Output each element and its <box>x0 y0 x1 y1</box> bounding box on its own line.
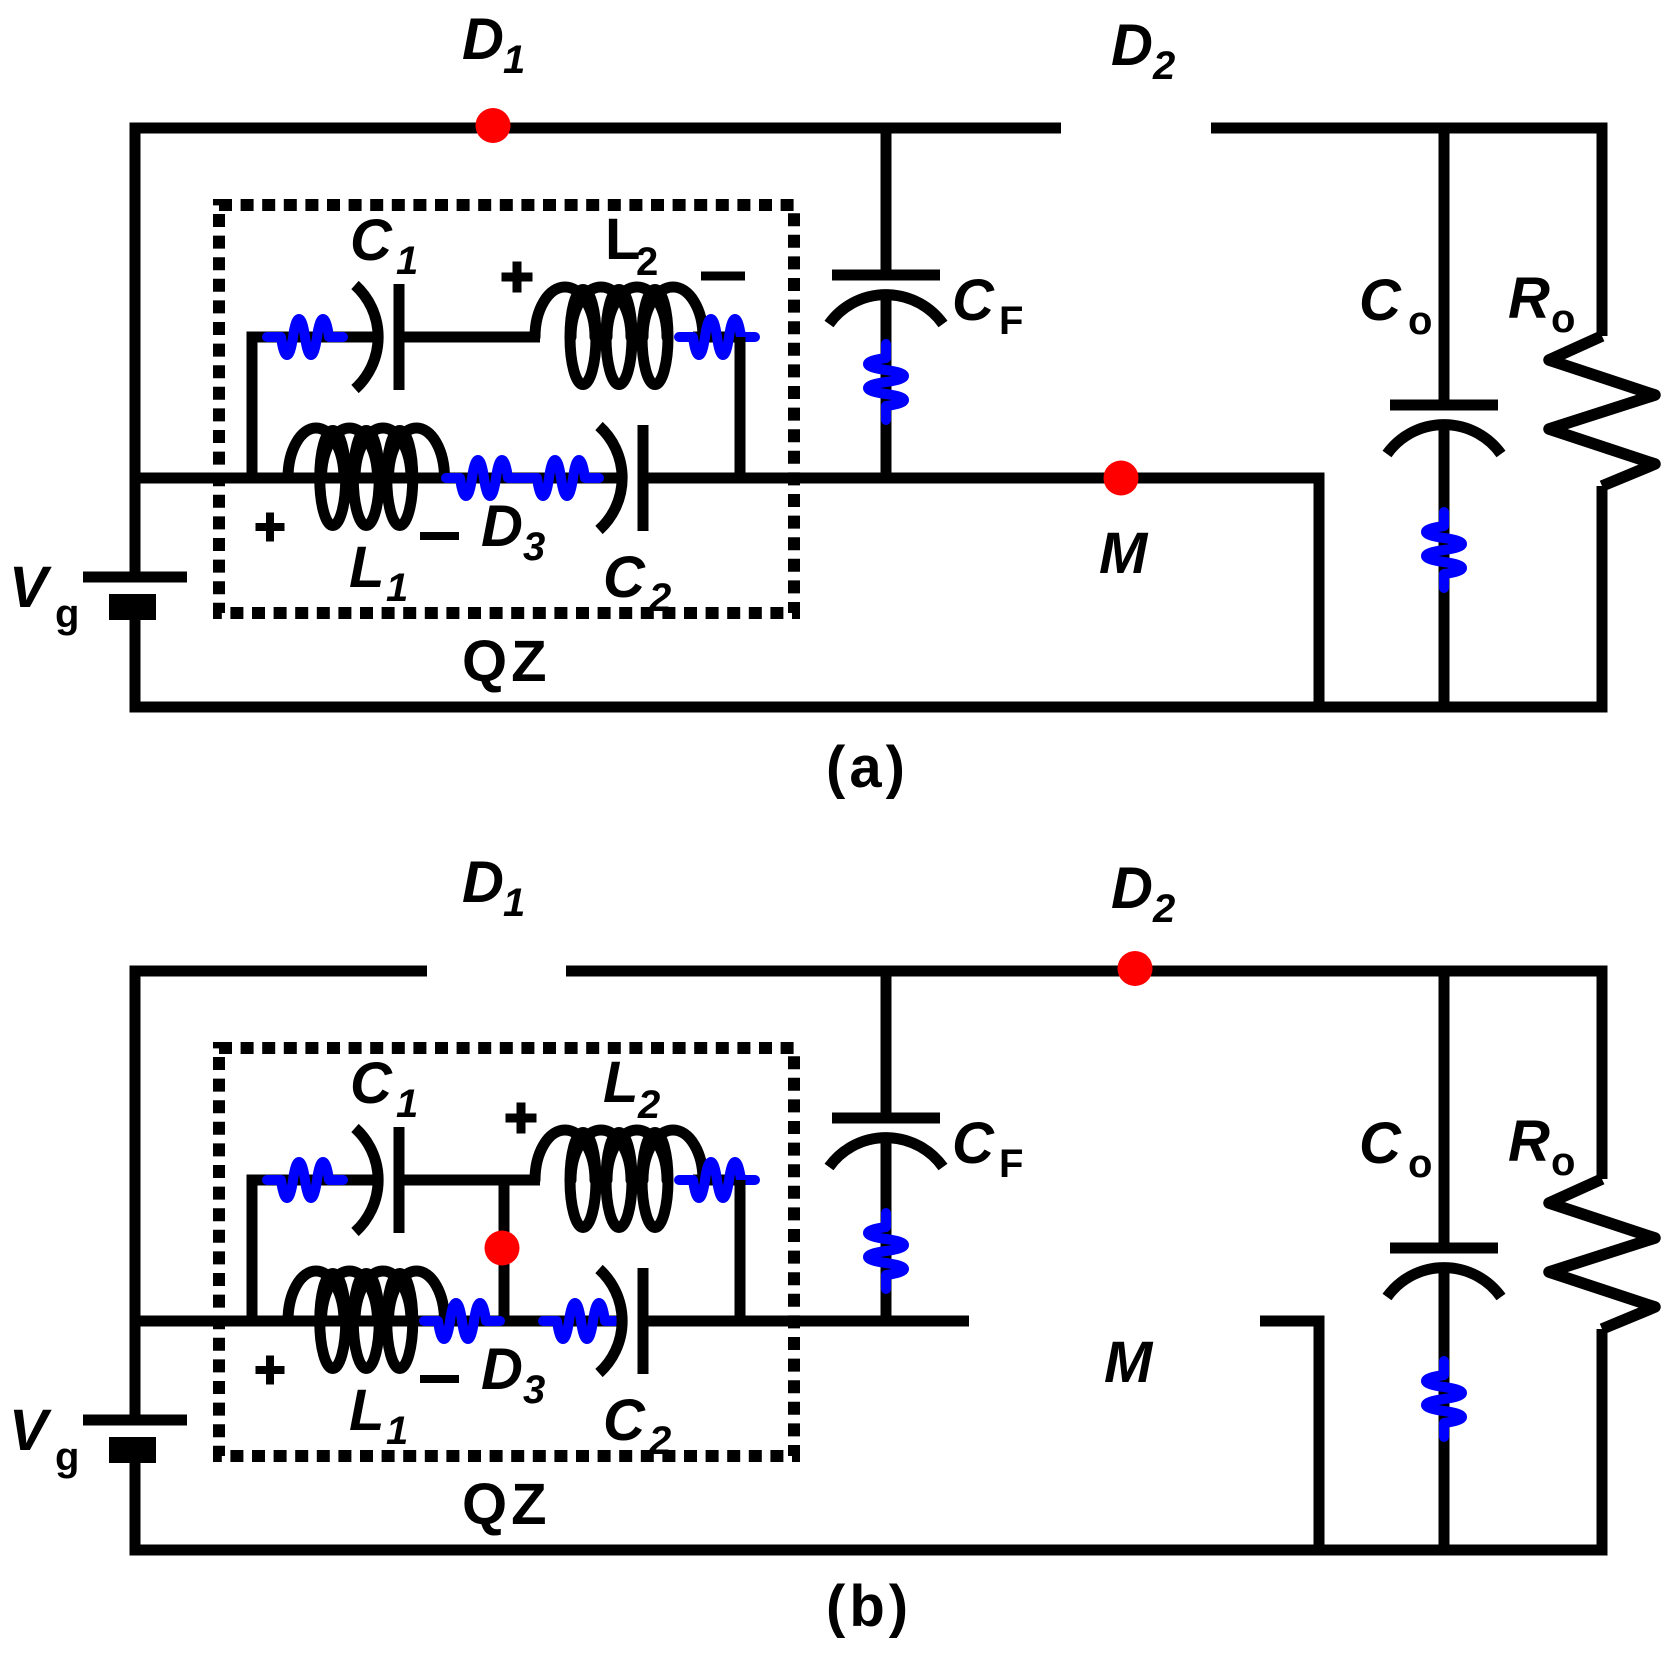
wire top rail down to Co <box>1439 971 1450 1243</box>
wire top rail left segment (a) <box>130 123 1062 134</box>
parasitic resistance of L2 (blue) <box>679 319 755 355</box>
wire CF to lower row <box>881 300 892 478</box>
wire left rail lower <box>130 620 141 713</box>
diode D2 on-state node (red dot) <box>1118 951 1153 986</box>
inductor L1 <box>288 1271 344 1321</box>
svg-text:g: g <box>55 1435 79 1479</box>
svg-text:C: C <box>952 268 995 333</box>
wire C1-L2 junction down to D3 node <box>499 1180 510 1321</box>
inductor L2 <box>535 1130 595 1180</box>
svg-text:D: D <box>462 7 504 72</box>
wire Ro to bottom rail <box>1597 486 1608 707</box>
svg-text:M: M <box>1099 521 1149 586</box>
wire C1 to L2 <box>404 1175 540 1186</box>
wire top rail down to Ro <box>1597 971 1608 1179</box>
parasitic resistance of Co (blue) <box>1426 512 1462 588</box>
svg-text:1: 1 <box>396 239 418 283</box>
svg-text:C: C <box>603 1388 646 1453</box>
capacitor Co <box>1390 1243 1498 1254</box>
svg-text:o: o <box>1408 299 1432 343</box>
svg-text:1: 1 <box>503 38 525 82</box>
svg-text:2: 2 <box>648 1419 671 1463</box>
wire top rail right segment (b) <box>566 966 1608 977</box>
svg-text:2: 2 <box>1152 44 1175 88</box>
svg-text:(b): (b) <box>826 1574 912 1639</box>
svg-text:L: L <box>349 1378 384 1443</box>
wire lower QZ row from left rail into C2 <box>135 473 621 484</box>
load resistor Ro <box>1549 1179 1655 1329</box>
polarity - of L2 <box>701 272 745 281</box>
svg-text:D: D <box>1111 13 1153 78</box>
capacitor CF <box>832 1113 940 1124</box>
svg-text:C: C <box>1359 268 1402 333</box>
wire C2 plate through CF junction to switch corner <box>648 473 1325 484</box>
wire C2 plate through CF junction to switch M open end <box>648 1316 969 1327</box>
svg-text:1: 1 <box>386 566 408 610</box>
polarity + of L2 <box>502 273 533 282</box>
wire L2 to corner (under ESR) <box>693 332 746 343</box>
svg-text:C: C <box>952 1111 995 1176</box>
load resistor Ro <box>1549 336 1655 486</box>
wire bottom rail <box>130 702 1608 713</box>
svg-text:1: 1 <box>386 1409 408 1453</box>
parasitic resistance of CF (blue) <box>868 1213 904 1289</box>
capacitor C1 <box>355 285 378 389</box>
wire riser connecting upper and lower QZ rows <box>247 1180 258 1321</box>
svg-text:o: o <box>1551 297 1575 341</box>
voltage source Vg (battery) <box>83 572 187 583</box>
svg-text:2: 2 <box>636 240 658 284</box>
wire left rail upper <box>130 966 141 1421</box>
wire C1 to L2 <box>404 332 540 343</box>
svg-text:R: R <box>1508 266 1550 331</box>
parasitic resistance of C2 (blue) <box>523 460 599 496</box>
wire upper QZ row to C1 <box>247 1175 378 1186</box>
QZ network dashed boundary box <box>219 1048 794 1456</box>
svg-text:o: o <box>1551 1140 1575 1184</box>
diode D3 on-state node (red dot) <box>485 1231 520 1266</box>
parasitic resistance of L2 (blue) <box>679 1162 755 1198</box>
svg-text:D: D <box>481 1337 523 1402</box>
svg-text:F: F <box>999 299 1023 343</box>
polarity + at C1-L2 junction <box>506 1114 537 1123</box>
svg-text:(a): (a) <box>826 735 909 800</box>
parasitic resistance of CF (blue) <box>868 344 904 420</box>
svg-text:1: 1 <box>396 1082 418 1126</box>
parasitic resistance of Co (blue) <box>1426 1361 1462 1437</box>
switch M on-state node (red dot) <box>1104 461 1139 496</box>
inductor L2 <box>535 287 595 337</box>
polarity + of L1 <box>256 523 285 531</box>
wire upper QZ row to C1 <box>247 332 378 343</box>
svg-text:3: 3 <box>523 525 545 569</box>
svg-text:L: L <box>603 1050 638 1115</box>
wire left rail lower <box>130 1463 141 1556</box>
capacitor C2 <box>599 426 622 530</box>
polarity - of L1 <box>420 1375 459 1383</box>
QZ network dashed boundary box <box>219 205 794 613</box>
wire bottom rail <box>130 1545 1608 1556</box>
wire L2 right end down to lower row <box>735 337 746 478</box>
svg-text:3: 3 <box>523 1368 545 1412</box>
svg-text:QZ: QZ <box>462 1472 551 1537</box>
parasitic resistance of C2 (blue) <box>543 1303 619 1339</box>
svg-text:D: D <box>462 850 504 915</box>
diode D1 on-state node (red dot) <box>476 108 511 143</box>
capacitor Co <box>1390 400 1498 411</box>
svg-text:C: C <box>603 545 646 610</box>
wire switch corner down to bottom rail <box>1314 473 1325 708</box>
wire top rail right segment (a) <box>1211 123 1608 134</box>
svg-text:R: R <box>1508 1109 1550 1174</box>
wire CF to lower row <box>881 1143 892 1321</box>
polarity - of L1 <box>420 532 459 540</box>
svg-text:2: 2 <box>1152 887 1175 931</box>
svg-text:L: L <box>349 535 384 600</box>
svg-text:C: C <box>350 208 393 273</box>
svg-text:C: C <box>350 1051 393 1116</box>
svg-text:QZ: QZ <box>462 629 551 694</box>
capacitor CF <box>832 270 940 281</box>
svg-text:D: D <box>1111 856 1153 921</box>
capacitor C2 <box>599 1269 622 1373</box>
wire top rail left segment (b) <box>130 966 428 977</box>
wire L2 right end down to lower row <box>735 1180 746 1321</box>
inductor L1 <box>288 428 344 478</box>
polarity + of L1 <box>256 1366 285 1374</box>
wire L2 to corner (under ESR) <box>693 1175 746 1186</box>
svg-text:V: V <box>9 1398 52 1463</box>
wire Co to bottom rail <box>1439 1273 1450 1550</box>
wire top rail down to CF <box>881 971 892 1113</box>
svg-text:M: M <box>1104 1330 1154 1395</box>
wire top rail down to CF <box>881 128 892 270</box>
wire riser connecting upper and lower QZ rows <box>247 337 258 478</box>
diode D3 on-state resistance (blue) <box>424 1303 500 1339</box>
wire left rail upper <box>130 123 141 578</box>
svg-text:F: F <box>999 1142 1023 1186</box>
svg-text:o: o <box>1408 1142 1432 1186</box>
svg-text:C: C <box>1359 1111 1402 1176</box>
wire switch corner down to bottom rail <box>1314 1316 1325 1551</box>
svg-text:2: 2 <box>648 576 671 620</box>
diode D3 on-state resistance (blue) <box>446 460 522 496</box>
wire lower QZ row from left rail into C2 <box>135 1316 621 1327</box>
voltage source Vg (battery) <box>83 1415 187 1426</box>
wire Co to bottom rail <box>1439 430 1450 707</box>
parasitic resistance of C1 (blue) <box>267 1162 343 1198</box>
parasitic resistance of C1 (blue) <box>267 319 343 355</box>
svg-text:g: g <box>55 592 79 636</box>
wire top rail down to Co <box>1439 128 1450 400</box>
wire Ro to bottom rail <box>1597 1329 1608 1550</box>
wire top rail down to Ro <box>1597 128 1608 336</box>
wire switch M right stub <box>1260 1316 1325 1327</box>
capacitor C1 <box>355 1128 378 1232</box>
svg-text:V: V <box>9 555 52 620</box>
svg-text:1: 1 <box>503 881 525 925</box>
svg-text:D: D <box>481 494 523 559</box>
svg-text:2: 2 <box>637 1083 660 1127</box>
